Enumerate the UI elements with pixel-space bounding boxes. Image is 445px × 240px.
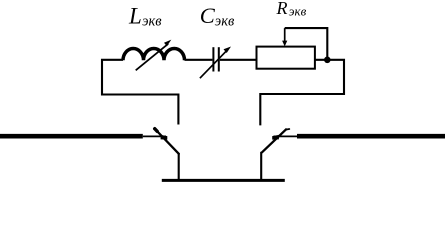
arrow of variable inductor: [136, 40, 172, 71]
label C_экв: [200, 3, 235, 30]
right contact arrowhead: [272, 135, 279, 140]
label L_экв: [128, 3, 162, 29]
wire: wiper loop to right end of resistor: [285, 28, 328, 60]
left thick bus line: [0, 134, 143, 139]
junction node (dot): [324, 57, 331, 64]
wire: left blade to bottom bar: [178, 154, 180, 181]
right thick bus line: [297, 134, 445, 139]
arrow of variable capacitor: [200, 47, 231, 79]
wire: capacitor to resistor: [220, 59, 257, 61]
label R_экв: [276, 0, 307, 19]
left contact control line: [143, 135, 166, 137]
bottom bar (common electrode): [162, 179, 285, 182]
svg-text:экв: экв: [289, 4, 307, 19]
wire: resistor right to output corner: [260, 60, 344, 126]
svg-text:R: R: [276, 0, 288, 18]
right contact control line: [274, 135, 298, 137]
wire: left branch (tank left end, down, right, down to left contact): [102, 60, 178, 125]
capacitor C_экв plates: [213, 47, 218, 71]
svg-text:C: C: [200, 3, 216, 28]
resistor R_экв body: [257, 47, 315, 69]
left contact arrowhead: [161, 135, 168, 140]
inductor L_экв (3 arcs): [123, 49, 185, 61]
wire: right blade to bottom bar: [260, 152, 262, 181]
right contact blade: [262, 129, 289, 152]
wire: inductor to capacitor: [185, 59, 213, 61]
svg-text:L: L: [128, 3, 142, 28]
svg-text:экв: экв: [142, 14, 162, 30]
wiper arrow of potentiometer: [282, 28, 287, 46]
left contact blade: [155, 129, 179, 154]
svg-text:экв: экв: [215, 14, 235, 30]
